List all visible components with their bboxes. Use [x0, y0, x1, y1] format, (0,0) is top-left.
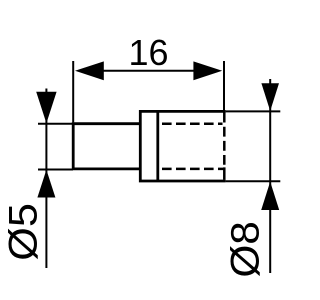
dim Ø8 top extension line: [226, 110, 281, 112]
dim Ø5 upper arrowhead (points down): [36, 92, 56, 124]
dim 16 left arrowhead: [75, 61, 104, 80]
dim 16 right extension line: [223, 61, 225, 110]
dim Ø5 bottom extension line: [38, 169, 73, 171]
svg-text:Ø5: Ø5: [0, 203, 45, 261]
dim Ø5 top extension line: [38, 123, 73, 125]
dim 16 left extension line: [72, 61, 74, 122]
dim Ø5 dimension line: [45, 89, 47, 269]
dim 16 dimension line: [100, 70, 196, 72]
step face line: [156, 111, 159, 181]
svg-text:Ø8: Ø8: [222, 221, 267, 278]
small cylinder Ø5 outline: [73, 124, 140, 169]
dim 16 right arrowhead: [193, 61, 222, 80]
hidden bore bottom edge (dashed): [162, 168, 224, 171]
dim Ø8 dimension line: [269, 79, 271, 273]
dim Ø8 upper arrowhead (points down): [261, 83, 279, 111]
hidden bore top edge (dashed): [162, 122, 223, 125]
svg-text:16: 16: [128, 32, 168, 73]
dim Ø8 bottom extension line: [226, 180, 281, 182]
dim Ø5 lower arrowhead (points up): [37, 170, 55, 198]
dim Ø8 lower arrowhead (points up): [261, 182, 279, 210]
large cylinder Ø8 outline: [140, 111, 225, 181]
hidden right face edge (dashed): [223, 112, 226, 180]
